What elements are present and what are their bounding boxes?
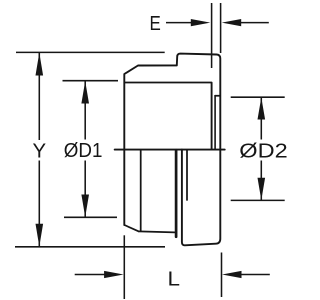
body top edge — [125, 82, 212, 84]
Y arrowhead down — [36, 224, 44, 247]
E arrowhead right-pointing — [191, 19, 211, 26]
D1 arrowhead down — [81, 195, 89, 218]
svg-text:L: L — [168, 268, 181, 290]
E right extension line — [220, 3, 222, 53]
D1 top extension line — [63, 80, 119, 82]
svg-text:ØD1: ØD1 — [64, 140, 103, 162]
inner face edge of lower-left cylinder — [140, 150, 142, 231]
L right extension line — [221, 253, 223, 298]
E left extension line — [211, 3, 213, 68]
D2 top extension line — [231, 96, 285, 98]
inner face edge of lower-right section — [186, 150, 188, 200]
svg-text:Y: Y — [33, 141, 47, 163]
svg-text:E: E — [150, 13, 161, 35]
body right edge — [211, 83, 213, 150]
E dimension arrows shafts — [166, 22, 269, 24]
D1 dimension line — [84, 81, 86, 217]
Y dimension line — [38, 53, 40, 246]
E arrowhead left-pointing — [222, 19, 242, 26]
bottom-left chamfer — [124, 225, 138, 231]
Y top extension line — [16, 51, 165, 53]
D2 arrowhead up — [258, 97, 266, 119]
thick face edge of lower-left cylinder — [175, 150, 178, 237]
D2 face band top connector — [215, 95, 220, 97]
L arrowhead left-pointing — [222, 271, 242, 278]
bottom silhouette of lower-left cylinder — [139, 231, 175, 232]
Y arrowhead up — [36, 53, 44, 76]
part outline main silhouette — [124, 54, 220, 246]
D1 arrowhead up — [81, 81, 89, 104]
L dimension arrows shafts — [75, 274, 270, 276]
D2 arrowhead down — [258, 178, 266, 201]
D2 dimension line — [260, 98, 262, 200]
D2 bottom extension line — [231, 199, 285, 201]
svg-text:ØD2: ØD2 — [239, 141, 287, 163]
D2 face band vertical — [214, 96, 216, 150]
mid line — [115, 149, 225, 151]
L arrowhead right-pointing — [104, 271, 124, 278]
D1 bottom extension line — [64, 216, 117, 218]
L left extension line — [123, 235, 125, 299]
Y bottom extension line — [15, 246, 165, 248]
